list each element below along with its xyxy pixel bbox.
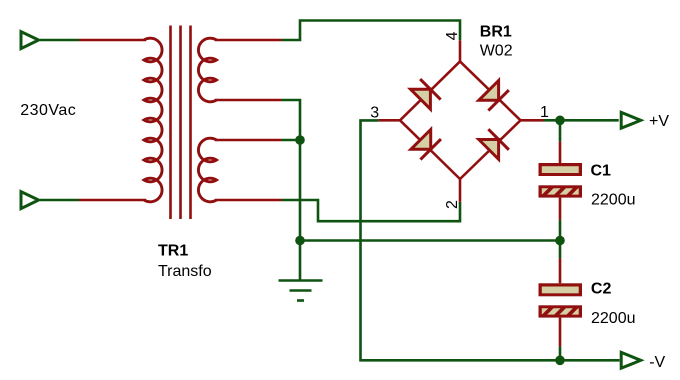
svg-text:TR1: TR1	[158, 242, 188, 259]
pin C2 bottom	[559, 318, 562, 347]
wire bridge pin3 down to -V rail	[361, 120, 620, 360]
pin 3	[379, 119, 400, 122]
transformer TR1	[79, 26, 282, 220]
pin secondary 1 top	[215, 39, 282, 42]
svg-text:1: 1	[540, 104, 549, 121]
svg-text:2200u: 2200u	[591, 192, 636, 209]
diode D-topleft	[410, 79, 440, 109]
pin 2	[459, 179, 462, 202]
core	[169, 26, 172, 220]
diode D-bottomleft	[411, 129, 441, 159]
wire bridge pin1 to +V	[544, 119, 619, 122]
diamond edge bottom-left	[400, 120, 460, 179]
secondary winding 1	[198, 38, 216, 102]
wire input top	[40, 39, 79, 42]
wire C1 top stub	[559, 120, 562, 141]
plate C1 negative hatched	[529, 184, 598, 204]
ground	[279, 241, 323, 301]
wire C2 bottom stub	[559, 346, 562, 360]
diamond edge top-right	[460, 61, 521, 120]
pin secondary 2 top	[215, 139, 282, 142]
svg-text:W02: W02	[480, 43, 513, 60]
bridge BR1	[379, 40, 544, 202]
wire sec1 top to bridge pin4	[282, 21, 461, 41]
node junction C1/C2 midpoint	[555, 236, 565, 246]
svg-text:-V: -V	[649, 354, 665, 371]
pin primary top	[79, 39, 146, 42]
diamond edge top-left	[400, 61, 460, 120]
svg-text:2: 2	[444, 200, 461, 209]
svg-text:C2: C2	[591, 281, 612, 298]
wire C2 top stub	[559, 241, 562, 259]
capacitor C2	[529, 258, 598, 346]
node junction +V / C1	[555, 116, 565, 126]
diode D-topright	[478, 80, 508, 110]
pin secondary 1 bottom	[215, 99, 282, 102]
pin C1 top	[559, 142, 562, 163]
pin primary bottom	[79, 199, 146, 202]
svg-text:+V: +V	[649, 113, 669, 130]
svg-text:Transfo: Transfo	[158, 263, 212, 280]
primary winding	[144, 38, 162, 202]
node junction -V / C2	[555, 356, 565, 366]
pin C2 top	[559, 258, 562, 283]
terminal +V	[621, 112, 641, 128]
pin C1 bottom	[559, 198, 562, 220]
svg-text:3: 3	[370, 104, 379, 121]
wire ground node to capacitor midpoint	[300, 239, 560, 242]
secondary winding 2	[198, 138, 216, 202]
wire sec1 bottom to junction	[282, 100, 301, 140]
pin 4	[459, 40, 462, 61]
terminal -V	[621, 352, 641, 368]
svg-text:4: 4	[444, 31, 461, 40]
diode D-bottomright	[478, 129, 508, 159]
terminal input top	[21, 32, 39, 49]
node junction ground	[295, 236, 305, 246]
capacitor C1	[529, 142, 598, 220]
terminal input bottom	[21, 192, 39, 209]
plate C1 positive	[539, 163, 583, 176]
wire sec2 top to junction	[282, 139, 301, 142]
wire centre tap down to ground node	[299, 140, 302, 241]
plate C2 positive	[539, 283, 583, 296]
svg-text:BR1: BR1	[480, 23, 512, 40]
plate C2 negative hatched	[529, 304, 598, 324]
wire sec2 bottom to bridge pin2	[282, 200, 461, 221]
diamond edge bottom-right	[460, 120, 521, 179]
wire C1 bottom stub	[559, 220, 562, 241]
pin 1	[521, 119, 544, 122]
pin secondary 2 bottom	[215, 199, 282, 202]
svg-text:230Vac: 230Vac	[20, 102, 76, 119]
svg-text:2200u: 2200u	[591, 310, 636, 327]
node junction transformer centre tap	[295, 135, 305, 145]
svg-text:C1: C1	[591, 162, 612, 179]
wire input bottom	[40, 199, 79, 202]
